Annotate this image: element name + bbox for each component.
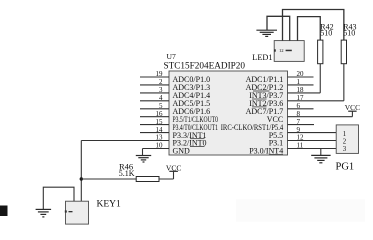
svg-text:1: 1 — [297, 78, 301, 86]
pin 7 IRC-CLKO/RST1/P5.4 — [221, 118, 314, 132]
svg-text:16: 16 — [156, 110, 164, 118]
ground near LED1 — [256, 30, 277, 36]
wire LED1 pin2 to ground — [267, 16, 290, 40]
ground at PG1 pin 3 — [311, 149, 330, 163]
pin 11 P3.0/INT4 — [249, 142, 336, 156]
ground at KEY1 — [36, 209, 52, 217]
pin 16 P3.5/T1/CLKOUT0 — [140, 110, 218, 124]
pin 1 ADC2/P1.2 — [246, 78, 314, 92]
svg-text:2: 2 — [343, 138, 347, 145]
wire junction to R46 and VCC — [81, 178, 173, 180]
LED1 module — [274, 41, 304, 62]
IC U7 STC15F204EADIP20 — [169, 71, 288, 155]
svg-text:4: 4 — [159, 94, 163, 102]
pin 8 VCC — [267, 110, 353, 124]
pin 3 ADC4/P1.4 — [140, 86, 210, 100]
power VCC at pin 8 — [345, 103, 360, 117]
pin 6 ADC7/P1.7 — [246, 102, 314, 116]
pin 10 GND — [143, 142, 191, 156]
pin 4 ADC5/P1.5 — [140, 94, 210, 108]
svg-text:GND: GND — [173, 147, 191, 156]
edge mark (clipped element at left border) — [0, 206, 8, 217]
svg-text:15: 15 — [156, 118, 164, 126]
svg-text:17: 17 — [297, 94, 305, 102]
svg-text:12: 12 — [297, 134, 305, 142]
svg-text:STC15F204EADIP20: STC15F204EADIP20 — [164, 61, 246, 71]
svg-text:U7: U7 — [167, 52, 176, 61]
pin 17 INT2/P3.6 — [249, 94, 344, 108]
svg-text:18: 18 — [297, 86, 305, 94]
faint watermark block — [236, 199, 365, 222]
svg-text:13: 13 — [156, 134, 164, 142]
wire LED1 pin1 to R43 top — [283, 10, 344, 41]
pin 9 P5.5 — [269, 126, 336, 140]
power VCC at R46 — [166, 164, 182, 179]
LED1 internal marks — [274, 48, 292, 53]
wire pin13 down to key junction — [80, 141, 82, 202]
wire R42 bottom to pin 18 — [319, 64, 321, 93]
svg-text:19: 19 — [156, 70, 164, 78]
switch KEY1 — [66, 201, 89, 224]
resistor R42 — [318, 40, 323, 64]
svg-text:5: 5 — [159, 102, 163, 110]
pin 19 ADC0/P1.0 — [140, 70, 210, 84]
pin 13 P3.2/INT0 — [81, 134, 206, 148]
connector PG1 — [336, 125, 358, 153]
svg-text:PG1: PG1 — [336, 161, 355, 172]
pin 14 P3.3/INT1 — [140, 126, 207, 140]
pin 15 P3.4/T0/CLKOUT1 — [140, 118, 218, 132]
svg-text:2: 2 — [159, 78, 163, 86]
wire LED1 pin3 to R42 top — [298, 17, 321, 41]
svg-text:9: 9 — [297, 126, 301, 134]
svg-text:6: 6 — [297, 102, 301, 110]
KEY1 internal marks — [65, 210, 73, 212]
svg-text:3: 3 — [343, 146, 347, 153]
pin 5 ADC6/P1.6 — [140, 102, 210, 116]
svg-text:510: 510 — [343, 28, 355, 37]
pin 18 INT3/P3.7 — [249, 86, 320, 107]
wire KEY1 left pin to ground — [43, 187, 74, 209]
svg-text:3: 3 — [159, 86, 163, 94]
svg-text:20: 20 — [297, 70, 305, 78]
resistor R46 5.1K — [136, 177, 159, 182]
wire R43 bottom to pin 17 — [343, 64, 345, 101]
svg-text:7: 7 — [297, 118, 301, 126]
svg-text:5.1K: 5.1K — [119, 169, 135, 178]
svg-text:12: 12 — [279, 48, 284, 53]
resistor R43 — [341, 40, 346, 64]
svg-text:1: 1 — [343, 131, 346, 138]
node junction R46/KEY1 — [80, 177, 83, 180]
pin 2 ADC3/P1.3 — [140, 78, 210, 92]
svg-text:LED1: LED1 — [252, 53, 272, 62]
svg-text:KEY1: KEY1 — [97, 199, 122, 209]
svg-text:10: 10 — [156, 142, 164, 150]
ground at chip pin 10 — [136, 149, 151, 163]
pin 12 P3.1 — [269, 134, 336, 148]
svg-text:8: 8 — [297, 110, 301, 118]
svg-text:14: 14 — [156, 126, 164, 134]
svg-text:11: 11 — [297, 142, 304, 150]
svg-text:510: 510 — [320, 28, 332, 37]
pin 20 ADC1/P1.1 — [246, 70, 314, 84]
